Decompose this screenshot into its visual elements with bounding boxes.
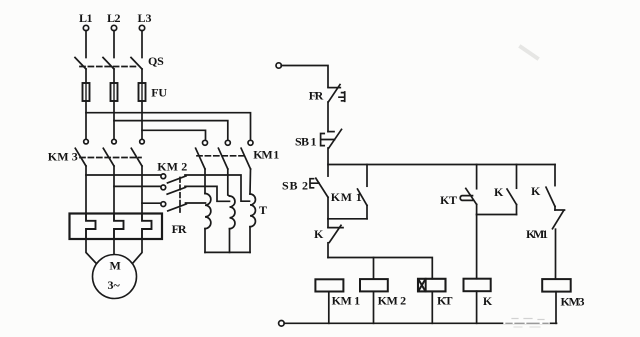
- transformer T coil 1: [204, 169, 206, 194]
- contactor KM1 pole 3: [248, 140, 253, 145]
- contactor KM1 pole 1: [203, 140, 208, 145]
- wire L3 to QS: [141, 31, 143, 58]
- contact K (NC) on main line: [327, 219, 329, 228]
- svg-text:KM 3: KM 3: [48, 150, 78, 164]
- FR heater element 2: [114, 214, 124, 240]
- transformer T coil 2: [228, 169, 230, 196]
- watermark: [521, 47, 537, 58]
- svg-text:KM 1: KM 1: [331, 190, 362, 204]
- wire coil feed rail: [328, 258, 432, 279]
- contact KM1 aux (NO, self-hold): [366, 165, 368, 187]
- wire feed line1 L1 to KM1 pole3: [86, 113, 251, 140]
- svg-text:K: K: [314, 227, 324, 241]
- wire feed line3 L3 to KM1 pole1: [142, 130, 206, 139]
- wire KM3 pole3 output down to FR box: [141, 166, 143, 214]
- wire KM2 contact1 to transformer coil3: [185, 175, 250, 201]
- wire KM2 contact3 to transformer coil1: [186, 202, 206, 204]
- svg-text:KM 1: KM 1: [332, 294, 361, 308]
- wire bottom bus: [284, 322, 556, 324]
- svg-text:FU: FU: [151, 86, 167, 100]
- fuse FU phase 1: [85, 83, 87, 101]
- thermal contact FR (NC): [328, 87, 340, 89]
- contactor KM2 contact 2: [161, 185, 166, 190]
- wire K coil to bottom bus: [476, 291, 478, 323]
- contactor KM2 linkage (dashed vertical): [179, 178, 181, 213]
- wire KM3 pole1 output down to FR box: [85, 166, 87, 214]
- coil K: [464, 279, 491, 292]
- wire FR to motor right: [132, 239, 142, 264]
- wire rejoin row: [328, 218, 367, 220]
- svg-text:QS: QS: [148, 54, 164, 68]
- svg-text:KM3: KM3: [561, 295, 585, 309]
- contactor KM3 linkage (dashed): [80, 157, 141, 159]
- svg-text:K: K: [483, 294, 493, 308]
- svg-text:K: K: [531, 184, 541, 198]
- wire KT contact bottom: [476, 204, 478, 214]
- wire QS pole1 to fuse: [85, 69, 87, 83]
- wire L1 to QS: [85, 31, 87, 58]
- svg-text:T: T: [259, 203, 267, 217]
- wire KT coil to bottom bus: [431, 291, 433, 323]
- node control top-left terminal: [276, 63, 281, 68]
- switch QS pole 1 blade: [75, 58, 86, 70]
- motor M 3~: [93, 255, 137, 299]
- wire junction row A: [328, 164, 555, 166]
- svg-text:SB 2: SB 2: [282, 178, 308, 192]
- fuse FU phase 3: [141, 83, 143, 101]
- node L3 terminal: [139, 25, 144, 30]
- switch QS pole 3 blade: [131, 58, 142, 70]
- svg-text:KM 2: KM 2: [157, 159, 187, 173]
- FR heater element 1: [86, 214, 96, 240]
- wire KT/K parallel join: [477, 214, 517, 216]
- transformer T star-point bus: [205, 251, 250, 253]
- svg-text:KM 1: KM 1: [253, 148, 279, 162]
- wire phase C fuse to KM3 contact: [141, 101, 143, 139]
- wire KM3 pole2 output down to FR box: [113, 166, 115, 214]
- wire KM2 coil feed: [373, 258, 375, 280]
- wire FR to SB1: [327, 102, 329, 132]
- wire phase A fuse to KM3 contact: [85, 101, 87, 139]
- wire KM1 coil to bottom bus: [328, 292, 330, 324]
- contactor KM2 contact 1: [161, 174, 166, 179]
- transformer T coil 3: [249, 169, 252, 194]
- contactor KM2 contact 3: [161, 202, 166, 207]
- wire QS pole2 to fuse: [113, 69, 115, 83]
- wire SB2 down to rejoin row: [327, 197, 329, 219]
- wire top terminal to main line: [281, 66, 328, 87]
- pushbutton SB1 (NC stop): [328, 131, 334, 133]
- node L2 terminal: [111, 25, 116, 30]
- svg-text:L3: L3: [138, 11, 152, 25]
- contactor KM3 pole 2: [112, 139, 117, 144]
- wire KM2 coil to bottom bus: [373, 291, 375, 323]
- wire FR to motor left: [86, 239, 97, 264]
- contact KT (NO, on-delay): [476, 165, 478, 189]
- contact K no.1 (NO): [516, 165, 518, 189]
- wire QS pole3 to fuse: [141, 69, 143, 83]
- coil KM3: [542, 279, 571, 292]
- svg-text:L2: L2: [107, 11, 121, 25]
- coil KM2: [360, 279, 388, 291]
- wire KM2 contact2 to transformer coil2: [185, 186, 230, 201]
- contactor KM1 linkage (dashed): [197, 155, 247, 157]
- contact KM1 (NC interlock): [555, 209, 565, 211]
- wire K no.2 to KM1 interlock: [554, 207, 556, 211]
- switch QS linkage (dashed): [80, 66, 137, 68]
- svg-text:M: M: [110, 259, 121, 273]
- svg-text:FR: FR: [172, 222, 187, 236]
- wire KM3 coil to bottom bus: [555, 292, 557, 324]
- switch QS pole 2 blade: [103, 58, 114, 70]
- wire phase B fuse to KM3 contact: [113, 101, 115, 139]
- coil KT (time relay): [418, 279, 446, 292]
- node L1 terminal: [83, 25, 88, 30]
- wire row3 phase C to KM2 low contact: [142, 202, 161, 204]
- contactor KM3 pole 3: [140, 139, 145, 144]
- svg-text:L1: L1: [79, 11, 93, 25]
- coil KM1: [315, 279, 343, 291]
- wire feed line2 L2 to KM1 pole2: [114, 121, 228, 140]
- svg-text:KT: KT: [440, 193, 457, 207]
- svg-text:SB 1: SB 1: [295, 135, 317, 149]
- FR heater element 3: [142, 214, 152, 240]
- svg-text:FR: FR: [309, 89, 324, 103]
- wire down to K coil: [476, 215, 478, 279]
- wire row1 phase A to KM2 top contact: [86, 174, 161, 176]
- pushbutton SB2 (NO start): [316, 178, 328, 197]
- svg-text:KT: KT: [437, 294, 453, 308]
- fuse FU phase 2: [113, 83, 115, 101]
- svg-text:K: K: [494, 185, 504, 199]
- node control bottom-left terminal: [279, 321, 285, 327]
- svg-text:KM1: KM1: [526, 227, 548, 241]
- contact K no.2 (NO): [554, 165, 556, 186]
- svg-text:3~: 3~: [108, 278, 121, 292]
- wire L2 to QS: [113, 31, 115, 58]
- wire SB1 to junction row: [327, 148, 329, 176]
- contactor KM3 pole 1: [84, 139, 89, 144]
- thermal relay FR heater box: [70, 214, 163, 240]
- contactor KM1 pole 2: [225, 140, 230, 145]
- wire FR to motor mid: [113, 239, 115, 255]
- wire row2 phase B to KM2 mid contact: [114, 185, 161, 187]
- svg-text:KM 2: KM 2: [378, 294, 407, 308]
